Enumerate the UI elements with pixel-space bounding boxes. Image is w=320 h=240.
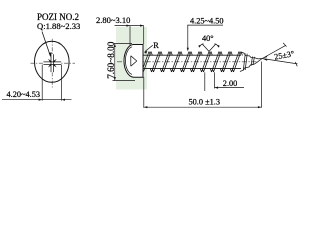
leader from POZI label to recess	[42, 32, 50, 56]
head front view circle	[35, 41, 70, 82]
svg-text:2.00: 2.00	[223, 79, 238, 88]
thread root lines	[143, 55, 241, 68]
front view vertical centerline	[51, 39, 53, 88]
front view horizontal centerline	[31, 62, 76, 64]
svg-text:40°: 40°	[202, 34, 214, 43]
screw axis centerline	[117, 61, 257, 63]
green highlight rectangle behind head side view	[116, 27, 147, 90]
svg-text:2.80~3.10: 2.80~3.10	[96, 15, 130, 25]
svg-text:4.20~4.53: 4.20~4.53	[7, 90, 41, 99]
25 degree point angle dimension	[262, 43, 297, 66]
svg-text:Q:1.88~2.33: Q:1.88~2.33	[37, 21, 80, 31]
svg-text:4.25~4.50: 4.25~4.50	[190, 17, 224, 26]
svg-text:50.0 ±1.3: 50.0 ±1.3	[189, 98, 221, 107]
pozi recess cross (open outlined bars, white fill)	[44, 62, 62, 65]
pozi 45-degree tick wedges	[48, 59, 57, 68]
screw point (cone with diminishing threads)	[240, 52, 262, 72]
head side view outline (white filled)	[124, 45, 143, 78]
thread flank lines	[143, 52, 242, 73]
recess side profile: slot arc + cone V	[125, 47, 136, 75]
svg-text:R: R	[153, 41, 159, 50]
